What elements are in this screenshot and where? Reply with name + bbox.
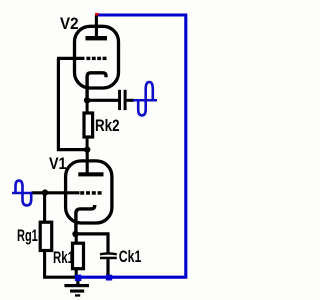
node: ground junction (blue) [75,275,81,281]
tube V1 grid (dashed) [80,191,84,195]
node: grid input junction [42,189,48,195]
svg-text:V1: V1 [49,155,67,173]
wire: V2 grid to V1 anode (down left side) [58,58,85,149]
node: V1 anode junction [84,146,90,152]
node: Ck1 rail junction (blue) [106,275,112,281]
resistor Rk1 [73,243,84,269]
svg-text:V2: V2 [60,15,79,33]
node: V2 cathode junction [84,97,90,103]
resistor Rk2 [84,113,93,137]
wire: Rk1 top lead [75,234,78,243]
svg-text:Rg1: Rg1 [17,227,38,245]
node: supply junction marker (red) at V2 anode [95,13,98,16]
tube V1 envelope [66,161,112,223]
wire: Rk2 top lead [86,100,89,113]
tube V2 cathode [87,73,106,98]
svg-text:Rk1: Rk1 [53,249,74,267]
tube V1 cathode [76,205,95,236]
tube V1 anode (plate) [78,172,103,176]
capacitor C-out plates [118,90,121,110]
ground [76,278,79,285]
svg-text:Ck1: Ck1 [119,248,142,266]
wire: V2 plate lead [95,16,98,37]
input signal symbol (sine) [12,192,32,195]
wire: Rk2 bottom lead [86,139,89,149]
resistor Rg1 [40,222,52,250]
wire: capacitor to output [127,99,134,102]
wire: cathode to output capacitor [87,99,118,102]
wire: input to V1 grid [32,191,80,194]
tube V2 anode (plate) [86,36,108,40]
wire: V1 plate lead [86,150,89,173]
B+ supply rail (blue wire: top, right side, bottom return) [78,15,186,277]
svg-text:Rk2: Rk2 [95,117,120,135]
wire: Rk1 bottom lead [75,269,78,276]
wire: Rg1 bottom to ground rail (black) [45,252,79,278]
wire: cathode junction to Ck1 [76,234,109,253]
wire: V2 grid lead [57,57,85,60]
wire: Ck1 bottom lead [106,259,109,276]
tube V2 grid (dashed) [86,57,90,60]
output signal symbol (sine) [133,99,157,102]
tube V2 envelope [75,26,119,88]
capacitor Ck1 plates [100,252,117,255]
resistor Rg1 leads [43,193,46,222]
node: V1 cathode junction [72,231,78,237]
